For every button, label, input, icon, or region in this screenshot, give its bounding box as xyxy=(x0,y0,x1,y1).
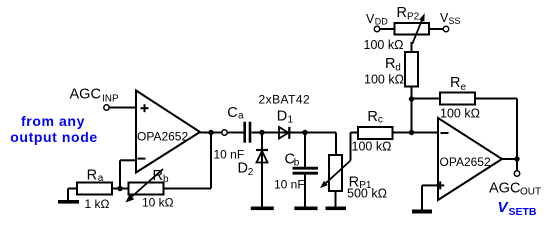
svg-text:R: R xyxy=(397,5,407,21)
svg-text:2: 2 xyxy=(248,167,254,178)
svg-text:R: R xyxy=(153,168,163,184)
svg-text:OPA2652: OPA2652 xyxy=(137,130,188,144)
svg-text:500 kΩ: 500 kΩ xyxy=(347,186,387,200)
svg-text:R: R xyxy=(367,109,377,125)
svg-text:R: R xyxy=(385,56,395,72)
svg-text:100 kΩ: 100 kΩ xyxy=(364,73,404,87)
svg-text:D: D xyxy=(238,161,248,177)
svg-text:1: 1 xyxy=(288,115,294,126)
svg-text:10 nF: 10 nF xyxy=(274,178,305,192)
svg-text:INP: INP xyxy=(102,94,119,105)
svg-text:a: a xyxy=(98,173,104,184)
svg-text:V: V xyxy=(366,12,375,26)
svg-text:100 kΩ: 100 kΩ xyxy=(352,140,392,154)
svg-text:R: R xyxy=(87,168,97,184)
svg-text:SS: SS xyxy=(449,16,461,26)
svg-text:b: b xyxy=(163,174,169,185)
svg-text:c: c xyxy=(378,114,383,125)
svg-text:from any: from any xyxy=(21,113,85,129)
svg-text:a: a xyxy=(238,111,244,122)
svg-text:P2: P2 xyxy=(407,12,420,23)
svg-text:100 kΩ: 100 kΩ xyxy=(440,106,480,120)
svg-text:C: C xyxy=(227,105,237,121)
svg-text:d: d xyxy=(395,62,401,73)
svg-text:1 kΩ: 1 kΩ xyxy=(85,197,110,211)
svg-text:b: b xyxy=(294,157,300,168)
svg-text:10 nF: 10 nF xyxy=(214,148,245,162)
svg-text:DD: DD xyxy=(375,16,388,26)
svg-text:10 kΩ: 10 kΩ xyxy=(142,196,174,210)
svg-text:output node: output node xyxy=(10,129,97,145)
svg-text:AGC: AGC xyxy=(70,87,101,103)
svg-text:2xBAT42: 2xBAT42 xyxy=(259,93,311,107)
svg-text:SETB: SETB xyxy=(509,206,537,218)
svg-text:AGC: AGC xyxy=(489,181,520,197)
svg-text:OPA2652: OPA2652 xyxy=(440,155,491,169)
svg-text:100 kΩ: 100 kΩ xyxy=(364,38,404,52)
svg-text:R: R xyxy=(450,75,460,91)
svg-text:OUT: OUT xyxy=(520,187,541,198)
svg-text:e: e xyxy=(461,82,467,93)
svg-text:D: D xyxy=(277,108,287,124)
